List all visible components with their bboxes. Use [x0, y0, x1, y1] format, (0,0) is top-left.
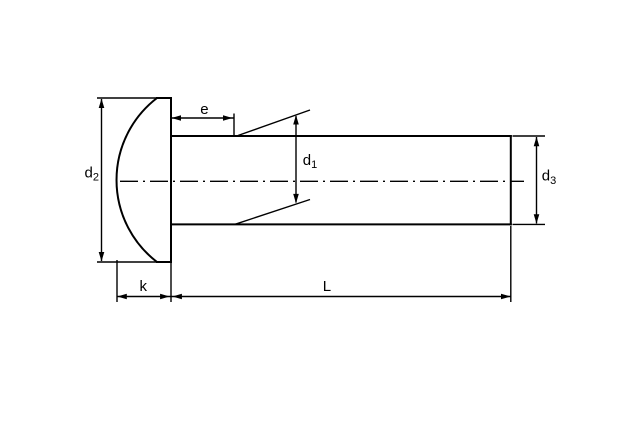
centerline (dash-dot axis): [120, 180, 524, 182]
arrow d3 top: [534, 137, 540, 146]
extension line L right: [510, 226, 512, 302]
dimension line e: [172, 117, 234, 119]
arrow d1 bottom: [293, 194, 299, 204]
rivet shank outline: [170, 135, 512, 225]
arrow d2 top: [99, 99, 105, 108]
dimension line k: [117, 296, 171, 298]
dimension line d1: [295, 116, 297, 203]
extension line under head face: [170, 263, 172, 302]
arrow k right: [160, 294, 170, 300]
svg-text:d2: d2: [85, 164, 99, 183]
extension line d3 top: [513, 135, 546, 137]
extension line d2 top: [97, 97, 157, 99]
oblique extension line d1 top: [238, 110, 310, 136]
rivet head outline: [117, 97, 172, 263]
svg-text:e: e: [200, 101, 208, 118]
svg-text:d3: d3: [542, 168, 556, 187]
svg-text:d1: d1: [303, 152, 317, 171]
arrow d3 bottom: [534, 214, 540, 223]
arrow L left: [172, 294, 182, 300]
dimension line d2: [101, 99, 103, 261]
svg-text:k: k: [140, 278, 148, 295]
arrow L right: [501, 294, 511, 300]
oblique extension line d1 bottom: [235, 200, 310, 225]
arrow d1 top: [293, 115, 299, 125]
extension line d3 bottom: [513, 223, 546, 225]
arrow e left: [172, 115, 182, 121]
arrow d2 bottom: [99, 252, 105, 261]
extension line k left: [116, 260, 118, 302]
extension line e: [233, 114, 235, 137]
arrow e right: [223, 115, 233, 121]
arrow k left: [117, 294, 127, 300]
svg-text:L: L: [323, 278, 331, 295]
dimension line d3: [536, 137, 538, 224]
extension line d2 bottom: [97, 261, 157, 263]
dimension line L: [171, 296, 511, 298]
